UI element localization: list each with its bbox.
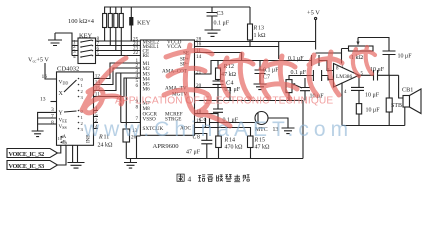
dip switch KEY block — [73, 33, 96, 64]
svg-text:RE: RE — [143, 53, 150, 59]
svg-text:10 μF: 10 μF — [398, 54, 413, 60]
CD4032 X output pins 12,14,15,11 — [95, 74, 101, 98]
svg-text:470 kΩ: 470 kΩ — [225, 145, 244, 151]
wire ground to dip switch common — [55, 33, 72, 56]
capacitor 0.1uF series1 — [288, 55, 319, 66]
ground left mid — [32, 131, 44, 137]
svg-text:Y: Y — [59, 111, 64, 117]
IC U2 CD4032 analog mux — [57, 66, 94, 146]
zobel capacitor 10uF — [351, 75, 380, 103]
svg-text:0.1 μF: 0.1 μF — [291, 70, 307, 76]
resistor R15 47k — [248, 136, 271, 159]
ground under C7 — [254, 84, 267, 90]
svg-text:10: 10 — [58, 136, 63, 141]
svg-text:4: 4 — [188, 175, 192, 184]
svg-text:4: 4 — [231, 81, 234, 87]
svg-text:14: 14 — [196, 54, 202, 60]
CD4032 pin 13 stub — [40, 97, 57, 103]
right bottom rail — [342, 125, 405, 127]
+5V wire to LM386 pin6 and pot — [316, 49, 349, 64]
pushbutton KEY — [129, 17, 151, 41]
potentiometer 1k top right — [349, 38, 390, 62]
ground under mic — [282, 128, 295, 134]
svg-text:6: 6 — [136, 83, 139, 89]
svg-text:1 kΩ: 1 kΩ — [254, 33, 267, 39]
svg-text:8: 8 — [51, 120, 54, 126]
CD4032 pins 3,7,8 to ground — [38, 107, 57, 131]
svg-text:47 kΩ: 47 kΩ — [255, 145, 271, 151]
dip switch left stubs — [72, 41, 78, 56]
capacitor 10uF gain — [383, 51, 413, 75]
wire audio line1 to LM386 pin2 — [195, 53, 334, 75]
svg-text:STB: STB — [391, 103, 402, 109]
bottom rail — [126, 101, 303, 159]
node vertical x279 — [278, 42, 280, 60]
svg-text:C7: C7 — [263, 75, 270, 81]
svg-text:C3: C3 — [217, 11, 224, 17]
ground top-left — [48, 33, 62, 46]
flag VOICE_IC_S3 — [7, 161, 58, 170]
char tu (figure) — [177, 174, 184, 181]
capacitor 10uF bypass — [300, 78, 324, 101]
resistor R11 24k — [98, 78, 141, 159]
speaker CB1 — [399, 75, 421, 125]
svg-text:4: 4 — [73, 54, 76, 60]
svg-text:VCCA: VCCA — [167, 44, 182, 50]
svg-text:16: 16 — [42, 74, 48, 80]
svg-text:LM386: LM386 — [336, 74, 352, 80]
CD4032 Y pins 1,5,2,4 stubs — [94, 106, 99, 130]
svg-text:+5 V: +5 V — [307, 10, 320, 17]
mic to ground — [268, 118, 288, 128]
wire pin11 row — [195, 52, 242, 54]
svg-text:47 μF: 47 μF — [186, 150, 201, 156]
svg-text:100 kΩ×4: 100 kΩ×4 — [68, 18, 95, 25]
svg-text:KEY: KEY — [137, 20, 151, 27]
capacitor 10uF output series — [370, 67, 385, 81]
svg-text:24 kΩ: 24 kΩ — [98, 143, 114, 149]
capacitor C7 0.1uF — [255, 61, 280, 85]
wire audio line2 pot to LM386 pin3 — [289, 76, 334, 80]
APR9600 right pin numbers — [196, 37, 202, 125]
svg-text:R: R — [253, 26, 258, 32]
capacitor C8 47uF — [186, 134, 212, 159]
wire M3 row down to R11 row — [120, 73, 122, 123]
resistor R13 1k — [248, 7, 267, 47]
wire VCCA pin16 row — [195, 46, 279, 48]
APR9600 internal labels — [143, 40, 192, 133]
ground under CD4032 — [68, 145, 85, 168]
wire pin20 ANA-IN down to mid rail — [195, 88, 231, 101]
caption chars voice alarm circuit — [198, 175, 249, 182]
Vcc +5V label — [28, 57, 57, 80]
caption figure 4 — [177, 174, 250, 184]
resistor R pullup3 — [114, 14, 118, 51]
svg-text:13: 13 — [258, 26, 264, 32]
svg-text:0.1 μF: 0.1 μF — [288, 56, 304, 62]
svg-text:13: 13 — [40, 97, 46, 103]
wire VCCD pin28 row to +5V — [195, 41, 316, 43]
capacitor C3 0.1uF — [207, 7, 230, 30]
svg-text:CB1: CB1 — [402, 87, 413, 94]
microphone MIC — [255, 112, 278, 134]
wire pin18 row — [195, 113, 219, 115]
svg-text:VOICE_IC_S3: VOICE_IC_S3 — [9, 163, 45, 170]
op-amp U3 LM386 — [327, 64, 364, 96]
svg-text:APPLICATION OF ELECTRONIC TECH: APPLICATION OF ELECTRONIC TECHNIQUE — [115, 95, 333, 106]
resistor R pullup2 — [108, 14, 112, 46]
potentiometer volume — [286, 80, 302, 101]
APR9600 left pin numbers — [131, 37, 139, 141]
svg-text:5: 5 — [97, 51, 100, 57]
svg-text:X: X — [59, 91, 64, 97]
wires dip to APR9600 rows — [96, 36, 141, 57]
WATERMARK LAYER — [82, 45, 375, 141]
svg-text:10 μF: 10 μF — [365, 93, 380, 99]
wire mid rail y100.5 — [195, 100, 304, 102]
svg-text:Vcc+5 V: Vcc+5 V — [28, 57, 49, 64]
C4 0.1uF — [213, 80, 241, 110]
resistor R14 470k — [216, 136, 243, 159]
capacitor 0.1uF series2 — [291, 70, 322, 81]
svg-text:VDD: VDD — [59, 80, 69, 86]
svg-text:VSS: VSS — [59, 124, 67, 130]
svg-text:VOICE_IC_S2: VOICE_IC_S2 — [9, 151, 45, 158]
resistor R pullup1 — [103, 14, 107, 42]
R12 47k — [216, 61, 237, 80]
svg-text:0.1 μF: 0.1 μF — [214, 21, 230, 27]
zobel resistor — [356, 104, 380, 126]
small cap C5 in column — [213, 109, 223, 136]
IC U1 APR9600 — [140, 40, 194, 150]
svg-text:VEE: VEE — [59, 118, 68, 124]
ground bottom center — [124, 159, 137, 169]
svg-text:M6: M6 — [143, 87, 151, 93]
svg-text:7: 7 — [51, 114, 54, 120]
svg-text:10 μF: 10 μF — [366, 108, 381, 114]
wire AOC row to R15 — [195, 128, 251, 137]
LM386 pin4 down to right rail — [341, 83, 343, 126]
+5V terminal — [307, 10, 320, 50]
wire pin26 down — [137, 136, 141, 159]
capacitor C6 series + wire to mic — [195, 117, 256, 127]
red calligraphy stamp — [82, 45, 375, 126]
CD4032 bottom select pins wires to flags — [58, 136, 68, 165]
ground under C3 — [205, 30, 221, 36]
resistor R pullup4 — [119, 14, 123, 56]
top +V rail wire — [105, 7, 250, 17]
CIRCUIT LAYER — [7, 7, 421, 170]
output wire — [359, 74, 399, 76]
flag VOICE_IC_S2 — [7, 149, 58, 158]
element STB — [386, 75, 402, 125]
wires mux X0..X3 to APR9600 M inputs — [94, 63, 141, 97]
svg-text:APR9600: APR9600 — [153, 143, 180, 150]
svg-text:22: 22 — [133, 50, 139, 56]
